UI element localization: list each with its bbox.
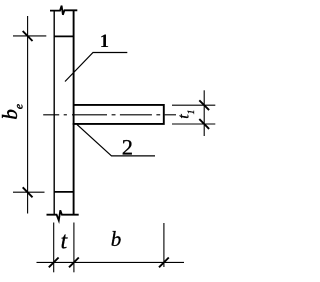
svg-text:b: b [111, 227, 122, 251]
extension line t1 top [172, 104, 215, 106]
extension line top of b_e [13, 35, 46, 37]
svg-text:t1: t1 [176, 110, 197, 119]
wall bottom break line [47, 210, 79, 220]
leader line 1 [65, 53, 127, 82]
slab outline [73, 105, 164, 124]
tick mark b_e bottom [23, 187, 33, 197]
tick mark t right / b left [69, 258, 79, 268]
extension line below slab end [163, 223, 165, 267]
wall top break line [50, 6, 77, 15]
leader line 2 [77, 125, 155, 156]
wall bottom cut edge line [54, 191, 74, 193]
dimension line bottom (t and b) [37, 261, 185, 263]
dimension line t1 (vertical, right) [203, 90, 205, 136]
extension line below wall right [73, 223, 75, 273]
extension line bottom of b_e [13, 191, 45, 193]
extension line below wall left [53, 223, 55, 273]
wall top cut edge line [54, 35, 74, 37]
tick mark t1 top [199, 100, 209, 110]
slab centerline (dash-dot) [43, 114, 176, 116]
wall left edge line [53, 10, 55, 214]
svg-text:be: be [0, 104, 26, 120]
extension line t1 bottom [172, 123, 215, 125]
svg-text:2: 2 [122, 134, 133, 159]
tick mark t1 bottom [199, 119, 209, 129]
svg-text:1: 1 [100, 31, 110, 52]
tick mark t left [49, 258, 59, 268]
dimension line b_e (vertical, left) [27, 16, 29, 214]
wall right edge line [73, 10, 75, 214]
svg-text:t: t [60, 229, 68, 255]
tick mark b right [159, 258, 169, 268]
tick mark b_e top [23, 31, 33, 41]
